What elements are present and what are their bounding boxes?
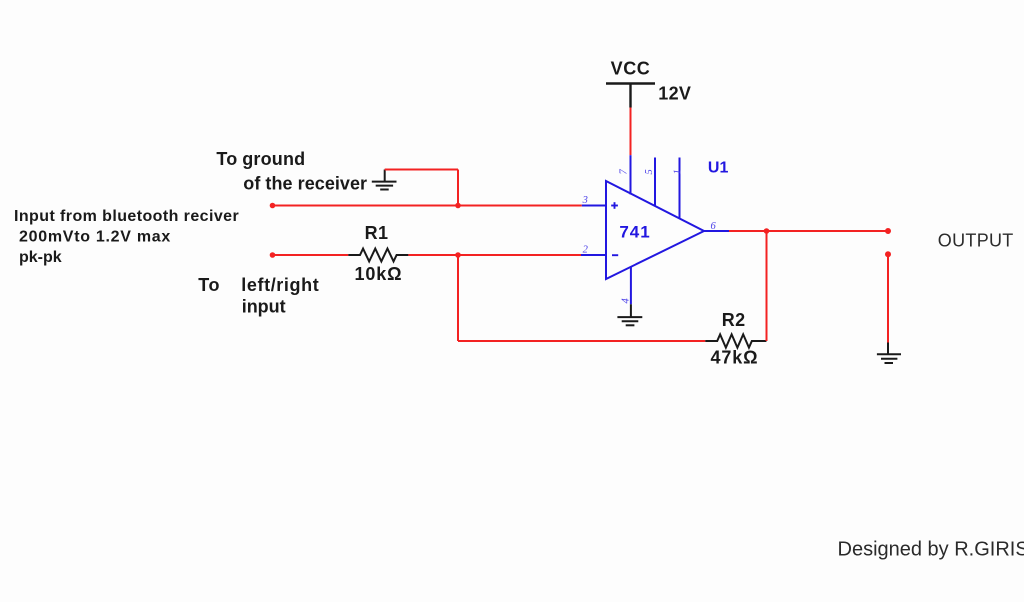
ground (op-amp pin 4) [617, 317, 642, 325]
node input top left [270, 203, 276, 209]
svg-text:Designed by R.GIRISH: Designed by R.GIRISH [838, 539, 1024, 561]
wire feedback vertical [457, 255, 459, 341]
node junction pin2/feedback [455, 252, 461, 258]
svg-text:47kΩ: 47kΩ [710, 348, 758, 368]
wire inverting input left red [273, 254, 349, 256]
svg-text:VCC: VCC [611, 58, 651, 78]
node output ground tap [885, 251, 891, 257]
node output end [885, 228, 891, 234]
wire VCC to pin 7 red segment [630, 108, 632, 156]
svg-text:10kΩ: 10kΩ [354, 264, 402, 284]
node junction pin3/ground hook [455, 203, 461, 209]
wire receiver ground hook horizontal red [385, 169, 458, 171]
svg-text:Input from bluetooth reciver: Input from bluetooth reciver [14, 208, 239, 225]
svg-text:R2: R2 [722, 310, 746, 330]
svg-text:input: input [242, 296, 286, 316]
pin 5 wire [654, 158, 656, 207]
svg-text:7: 7 [618, 169, 629, 175]
wire output ground stub black [887, 343, 889, 355]
wire output ground vertical red [887, 254, 889, 342]
svg-text:U1: U1 [708, 160, 729, 177]
op-amp U1 triangle [606, 181, 704, 279]
resistor R2 [705, 334, 766, 347]
svg-text:Toground: Toground [216, 149, 305, 169]
op-amp minus symbol [612, 254, 618, 256]
ground (output) [877, 354, 901, 363]
svg-text:R1: R1 [365, 223, 389, 243]
pin 4 wire blue [630, 267, 632, 305]
wire output red [729, 230, 888, 232]
pin 4 wire black stub [630, 304, 632, 317]
svg-text:pk-pk: pk-pk [19, 249, 62, 266]
svg-text:200mVto 1.2V max: 200mVto 1.2V max [19, 228, 171, 245]
svg-text:6: 6 [711, 221, 717, 232]
svg-text:of the receiver: of the receiver [243, 174, 367, 194]
pin 6 wire [703, 230, 729, 232]
svg-text:Toleft/right: Toleft/right [198, 275, 319, 295]
svg-text:1: 1 [673, 169, 684, 174]
ground (receiver) [372, 170, 397, 190]
node input bottom left [270, 252, 276, 258]
svg-text:2: 2 [583, 244, 589, 255]
wire R1 to pin 2 red [408, 254, 581, 256]
svg-text:OUTPUT: OUTPUT [938, 231, 1014, 251]
svg-text:3: 3 [582, 195, 588, 206]
pin 3 wire [582, 205, 607, 207]
wire feedback horizontal [458, 340, 705, 342]
svg-text:5: 5 [644, 169, 655, 174]
wire receiver ground hook vertical red [457, 170, 459, 206]
wire VCC stem black [629, 84, 631, 108]
wire non-inverting input (pin 3) [273, 205, 582, 207]
pin 1 wire [679, 158, 681, 219]
wire R2 up to output [766, 231, 768, 341]
resistor R1 [348, 249, 408, 262]
power symbol VCC bar [606, 82, 655, 84]
svg-text:12V: 12V [658, 84, 691, 104]
svg-text:741: 741 [619, 222, 650, 241]
pin 2 wire [581, 254, 607, 256]
pin 7 wire [630, 155, 632, 194]
svg-text:4: 4 [621, 298, 632, 304]
node junction output/R2 [764, 228, 770, 234]
op-amp plus symbol [611, 202, 618, 209]
